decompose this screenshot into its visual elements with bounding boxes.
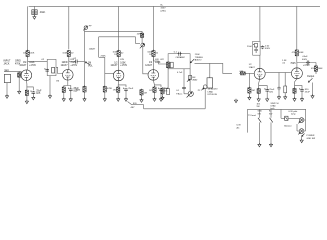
resistor R1 plate V1 100K: [26, 50, 29, 58]
svg-text:1M AUDIOLEADDRY/LIVE: 1M AUDIOLEADDRY/LIVE: [208, 88, 218, 96]
wire R11 down: [141, 37, 143, 43]
capacitor C6 cathode V4: [159, 88, 163, 92]
wire lamp2 right: [304, 130, 306, 132]
resistor R7 volume lower: [83, 85, 86, 93]
resistor R9 plate V3 100K: [117, 50, 120, 58]
svg-text:.02: .02: [70, 53, 74, 55]
wire C5 to ground: [125, 92, 127, 99]
svg-text:Output: Output: [307, 75, 315, 78]
potentiometer P1 volume wiper: [85, 62, 90, 65]
wire V4 cathode: [153, 80, 154, 87]
svg-text:47K: 47K: [311, 68, 315, 70]
wire loop inner left: [98, 37, 100, 58]
ground power switch: [300, 139, 303, 143]
wire output to ground: [312, 83, 314, 96]
svg-text:P2: P2: [198, 90, 201, 92]
svg-text:.02: .02: [41, 59, 45, 61]
resistor R25 output: [314, 65, 317, 72]
wire tone mid leg: [183, 69, 185, 86]
wire R2 to ground: [18, 78, 20, 92]
svg-text:22uF: 22uF: [247, 46, 253, 48]
wire loop inner right: [135, 37, 137, 44]
fuse F1: [285, 116, 288, 120]
svg-text:0.02630V: 0.02630V: [265, 45, 271, 50]
svg-text:6.3V pilot: 6.3V pilot: [289, 110, 298, 113]
wire R8 to ground: [104, 93, 106, 99]
capacitor C3 cathode V2: [69, 88, 73, 92]
svg-text:GRID12AX7: GRID12AX7: [61, 62, 69, 67]
svg-text:100K1W: 100K1W: [113, 52, 118, 57]
wire NFB tap: [128, 102, 132, 105]
svg-text:1M12AX7: 1M12AX7: [19, 62, 27, 67]
capacitor C18 in box: [253, 44, 258, 53]
ground input jack: [5, 95, 8, 99]
wire R18 top link: [162, 87, 164, 89]
triode V6: [291, 68, 302, 79]
svg-text:250K: 250K: [101, 55, 107, 57]
wire lamps right link: [305, 109, 307, 131]
wire C21 to ground: [266, 92, 268, 98]
svg-text:25uF820: 25uF820: [269, 89, 275, 94]
wire V5 cathode jog: [259, 86, 268, 89]
ground V4 cathode C: [159, 98, 162, 102]
wire lamp2 left drop: [296, 124, 298, 131]
svg-text:1M: 1M: [56, 81, 59, 83]
input jack J1: [4, 69, 11, 82]
switch S2: [270, 118, 273, 123]
svg-text:100K: 100K: [318, 68, 323, 70]
svg-text:INPUTJACK: INPUTJACK: [4, 61, 11, 66]
wire bus drop V3: [118, 6, 120, 51]
wire fuse feed: [280, 109, 282, 118]
wire V2 plate out: [69, 59, 75, 62]
wire jack sleeve down: [6, 83, 8, 96]
resistor R18b tone: [167, 89, 170, 95]
ground heater stub: [234, 99, 237, 103]
wire V2 cathode: [67, 80, 69, 85]
wire C3 to ground: [70, 92, 72, 99]
wire C4 to volume node: [78, 61, 84, 63]
svg-text:.02: .02: [120, 53, 124, 55]
wire R10 to ground: [117, 92, 119, 98]
wire divider drop 1: [278, 73, 280, 87]
svg-text:100K: 100K: [29, 53, 35, 55]
resistor R2 1M grid leak: [18, 72, 21, 78]
wire V4 cathode jog: [155, 85, 162, 87]
wire switch1 upper: [258, 109, 260, 117]
wire treble out: [195, 63, 233, 73]
wire R22 gnd lead: [284, 93, 286, 97]
svg-text:1.5K.02: 1.5K.02: [282, 60, 287, 65]
wire jack to V1 grid: [9, 71, 21, 74]
capacitor C19 beside box: [261, 46, 265, 50]
svg-text:GRID470K: GRID470K: [15, 61, 21, 66]
ground V3 cathode C: [124, 98, 127, 102]
ground R22: [284, 96, 287, 100]
potentiometer P6 level: [203, 85, 207, 89]
svg-text:12AX7: 12AX7: [89, 47, 96, 50]
wire tone left leg: [167, 69, 169, 87]
resistor R16b inner: [170, 62, 173, 68]
svg-text:0.1: 0.1: [174, 51, 178, 53]
wire R7 to ground: [84, 93, 86, 99]
svg-text:1MVOL: 1MVOL: [88, 63, 93, 68]
wire loop outer left: [84, 31, 86, 61]
wire bus to filter caps: [33, 6, 35, 10]
ground V5 cathode R: [257, 98, 260, 102]
capacitor C20 filter: [32, 10, 37, 15]
wire loop outer right: [141, 31, 143, 33]
wire R24 to ground: [294, 93, 296, 98]
ground V5 cathode C: [266, 98, 269, 102]
capacitor C23 cathode V6: [300, 89, 304, 93]
wire tone right leg: [189, 69, 191, 91]
wire V5 cathode: [259, 79, 260, 88]
wire R21 to ground: [258, 93, 260, 98]
svg-text:82025uF: 82025uF: [305, 89, 311, 94]
resistor R17 grid stopper 68K: [239, 72, 246, 75]
svg-text:100K+170V: 100K+170V: [120, 62, 127, 67]
resistor R19 level: [207, 78, 213, 88]
wire R2 top: [18, 71, 20, 72]
wire fuse left: [281, 117, 285, 119]
triode V4: [148, 70, 159, 81]
wire switch2 lower: [270, 122, 272, 144]
svg-text:B+325V(290): B+325V(290): [161, 5, 167, 13]
wire R6 to ground: [63, 93, 65, 98]
box V5 plate network: [253, 41, 260, 55]
potentiometer P4 treble wiper: [190, 59, 194, 63]
wire level drop: [209, 63, 211, 77]
ground tone left: [161, 96, 164, 100]
wire R14 top: [141, 94, 143, 97]
wire V3 cathode jog: [118, 85, 126, 87]
capacitor C1 cathode V1: [32, 91, 36, 95]
wire V6 cathode jog: [295, 86, 303, 89]
potentiometer P2 mix: [140, 43, 145, 48]
svg-text:1M: 1M: [252, 90, 255, 92]
svg-text:1/212AX7: 1/212AX7: [249, 64, 256, 69]
wire R23 to V6 plate: [296, 56, 298, 63]
wire tone left pair: [163, 87, 169, 88]
wire power ground lead: [301, 137, 303, 140]
ground V1 cathode R: [25, 100, 28, 104]
wire bus drop V4: [153, 6, 155, 51]
capacitor C17 right leg: [189, 76, 192, 80]
resistor R6 cathode V2: [62, 86, 65, 93]
arrow output jack: [308, 78, 312, 82]
wire C23 to ground: [301, 92, 303, 98]
box tone stack: [168, 54, 190, 69]
ground V6 cathode R: [293, 97, 296, 101]
ground V1 cathode C: [32, 96, 35, 100]
wire switch1 lower: [258, 122, 260, 144]
svg-text:4.7uF: 4.7uF: [177, 72, 183, 74]
ground R14: [140, 99, 143, 103]
wire V2 cathode left: [63, 86, 65, 88]
arrow right leg wiper: [187, 79, 190, 81]
resistor R22 divider b: [284, 86, 287, 93]
wire trimmer stub: [84, 29, 86, 31]
svg-text:TV lead: TV lead: [248, 115, 256, 117]
wire plate to output cap: [297, 62, 316, 64]
ground coupling box: [48, 95, 51, 99]
svg-text:B+SW: B+SW: [269, 111, 272, 116]
triode V3: [113, 70, 124, 81]
wire R13 to ground: [154, 92, 156, 98]
wire box to V5 plate: [259, 55, 261, 68]
svg-text:.022: .022: [160, 59, 165, 61]
wire to V3 grid: [105, 73, 114, 75]
wire B+ supply bus: [29, 5, 320, 7]
svg-text:SWITCHLEADboth: SWITCHLEADboth: [271, 103, 279, 110]
resistor R11 22K: [141, 32, 144, 38]
ground S2: [269, 143, 272, 147]
svg-text:47K: 47K: [292, 52, 296, 54]
wire V1 cathode: [25, 81, 28, 90]
svg-text:0.1: 0.1: [176, 90, 180, 92]
wire R12 to V4 plate: [153, 57, 155, 70]
wire switch2 upper: [270, 109, 272, 117]
wire C16 to bass pot: [184, 93, 188, 95]
capacitor C2 coupling: [45, 69, 49, 73]
wire V6 plate lead: [296, 63, 298, 68]
svg-text:P.Bass: P.Bass: [176, 94, 182, 96]
lamp pilot L1: [298, 118, 304, 124]
wire divider link: [279, 72, 285, 74]
svg-text:1/212AX7: 1/212AX7: [110, 62, 118, 67]
trimmer top: [83, 26, 87, 31]
wire V5 plate out: [265, 72, 279, 74]
switch S1: [258, 118, 261, 123]
wire R18 to ground: [162, 94, 164, 97]
wire V5 grid leak drop: [248, 73, 250, 87]
wire V4 plate to tone: [154, 59, 169, 65]
wire tap down: [104, 57, 106, 86]
svg-text:.05uF400V: .05uF400V: [302, 56, 308, 61]
resistor R13 cathode V4: [153, 86, 156, 93]
wire P2 to V4 grid: [143, 47, 148, 74]
wire lamp2 left: [297, 130, 299, 132]
ground filter caps: [33, 15, 36, 19]
capacitor C16 bass 0.1: [182, 86, 186, 90]
svg-text:3M3: 3M3: [76, 90, 81, 92]
resistor R21 cathode V5: [257, 88, 260, 95]
ground R7: [83, 98, 86, 102]
svg-text:100K: 100K: [62, 53, 68, 55]
wire output cap down: [315, 63, 317, 67]
lamp jewel L2: [298, 129, 304, 135]
arrow level wiper: [201, 88, 204, 90]
resistor R24 cathode V6: [293, 88, 296, 95]
resistor R8 tap: [103, 85, 106, 93]
capacitor C15 tone top: [178, 52, 182, 56]
svg-text:7025: 7025: [290, 63, 296, 65]
wire fuse to lamp: [288, 117, 299, 119]
wire C22 gnd lead: [278, 91, 280, 97]
svg-text:POWERGND SW: POWERGND SW: [307, 135, 316, 140]
wire bus drop V5: [259, 6, 261, 41]
wire heater left leg: [246, 109, 248, 132]
svg-text:+170V: +170V: [303, 65, 310, 67]
wire R25 down: [315, 71, 317, 74]
box shielded coupling: [47, 59, 56, 75]
wire R1 to V1 plate: [27, 57, 29, 70]
ground V3 cathode R: [117, 98, 120, 102]
wire box bottom to ground: [49, 76, 51, 96]
ground V2 cathode C: [69, 98, 72, 102]
ground R2: [18, 90, 21, 94]
svg-text:lamp: lamp: [291, 114, 296, 116]
wire inner to pot: [136, 43, 141, 45]
svg-text:25uF1K5: 25uF1K5: [36, 90, 42, 95]
resistor R4 grid stopper box: [52, 67, 55, 73]
wire bus drop V1: [27, 6, 29, 51]
svg-text:25uF: 25uF: [128, 88, 134, 90]
wire NFB upper: [132, 104, 144, 106]
arrow power ground: [302, 134, 305, 137]
resistor R20 V5 grid leak: [248, 87, 251, 94]
capacitor C21 cathode V5: [265, 89, 269, 93]
capacitor C4 coupling 0.02: [74, 60, 78, 64]
resistor R3 cathode V1: [25, 89, 28, 96]
ground S1: [258, 143, 261, 147]
wire loop inner top: [99, 36, 136, 38]
wire divider drop 2: [284, 73, 286, 87]
wire level to NFB line: [204, 89, 206, 109]
ground V4 cathode R: [153, 98, 156, 102]
resistor R23 plate V6: [295, 49, 298, 57]
svg-text:22K: 22K: [137, 33, 141, 35]
svg-text:1M: 1M: [144, 93, 147, 95]
svg-text:Balance: Balance: [284, 126, 292, 128]
svg-text:GNDSW: GNDSW: [258, 111, 263, 116]
wire C16 down: [183, 90, 185, 94]
resistor R16 tone left: [167, 61, 170, 69]
wire V3 cathode: [117, 81, 119, 87]
triode V5: [254, 68, 265, 79]
svg-text:100K: 100K: [298, 52, 304, 54]
wire inner bottom: [99, 56, 105, 58]
svg-text:10KLEAD: 10KLEAD: [192, 77, 198, 82]
wire C6 to ground: [160, 92, 162, 99]
capacitor C5 cathode V3: [124, 88, 128, 92]
wire heater bus top: [247, 108, 306, 110]
svg-text:68K: 68K: [240, 71, 244, 73]
wire lamp1 right: [304, 119, 306, 121]
resistor R10 cathode V3: [117, 86, 120, 93]
wire R17 to V5 grid: [245, 72, 254, 74]
svg-text:7025+170V: 7025+170V: [70, 62, 77, 67]
resistor R14 grid leak V4: [140, 89, 143, 96]
svg-text:63V: 63V: [155, 59, 159, 61]
resistor R12 plate V4 100K: [152, 50, 155, 58]
svg-text:6.3VAC: 6.3VAC: [237, 125, 242, 130]
ground V6 cathode C: [300, 97, 303, 101]
ground R20: [248, 96, 251, 100]
ground C22: [277, 96, 280, 100]
resistor R18 tone gnd left: [161, 87, 164, 95]
wire V1 cathode jog: [27, 87, 33, 90]
wire volume down: [84, 62, 86, 88]
wire V1 plate to coupling box: [28, 60, 48, 62]
ground output: [311, 95, 314, 99]
wire C1 to ground: [32, 94, 34, 97]
wire R14 to ground: [141, 95, 143, 100]
triode V2: [63, 70, 74, 81]
svg-text:PP: PP: [89, 26, 92, 28]
wire V6 cathode: [295, 79, 297, 89]
wire bus drop V2: [68, 6, 70, 49]
wire bus drop V6: [296, 6, 298, 49]
svg-text:CERAMIC: CERAMIC: [176, 56, 186, 59]
wire box to V2 grid: [56, 67, 63, 73]
svg-text:250KTREBLEAUDIO: 250KTREBLEAUDIO: [195, 54, 204, 61]
svg-text:63V: 63V: [120, 59, 124, 61]
wire loop outer top: [84, 30, 142, 32]
wire V6 plate up: [296, 62, 298, 64]
wire R3 to ground: [26, 96, 28, 100]
svg-text:.02: .02: [73, 58, 77, 60]
capacitor C24 output 0.05: [306, 61, 310, 65]
wire R5 to V2 plate: [68, 57, 70, 70]
wire R9 to V3 plate: [118, 57, 120, 71]
svg-text:100K+170V: 100K+170V: [29, 62, 36, 67]
capacitor C22 divider a: [277, 86, 280, 91]
svg-text:40uF.: 40uF.: [40, 12, 46, 14]
potentiometer P5 bass: [187, 91, 194, 97]
svg-text:1/212AX7: 1/212AX7: [145, 62, 153, 67]
wire NFB long run: [144, 108, 206, 110]
wire to V6 grid: [285, 72, 291, 74]
wire R20 to ground: [248, 93, 250, 97]
svg-text:1K55W: 1K55W: [257, 104, 262, 109]
ground R8: [103, 98, 106, 102]
ground V2 cathode R: [62, 98, 65, 102]
svg-text:4R7: 4R7: [131, 107, 136, 109]
svg-text:100K1W: 100K1W: [147, 52, 152, 57]
wire NFB step down: [143, 105, 145, 109]
resistor R5 plate V2 100K: [67, 50, 70, 58]
wire filter caps to ground: [33, 15, 35, 17]
svg-text:.02: .02: [155, 53, 159, 55]
triode V1: [21, 70, 32, 81]
wire V2 cathode jog: [64, 86, 71, 89]
